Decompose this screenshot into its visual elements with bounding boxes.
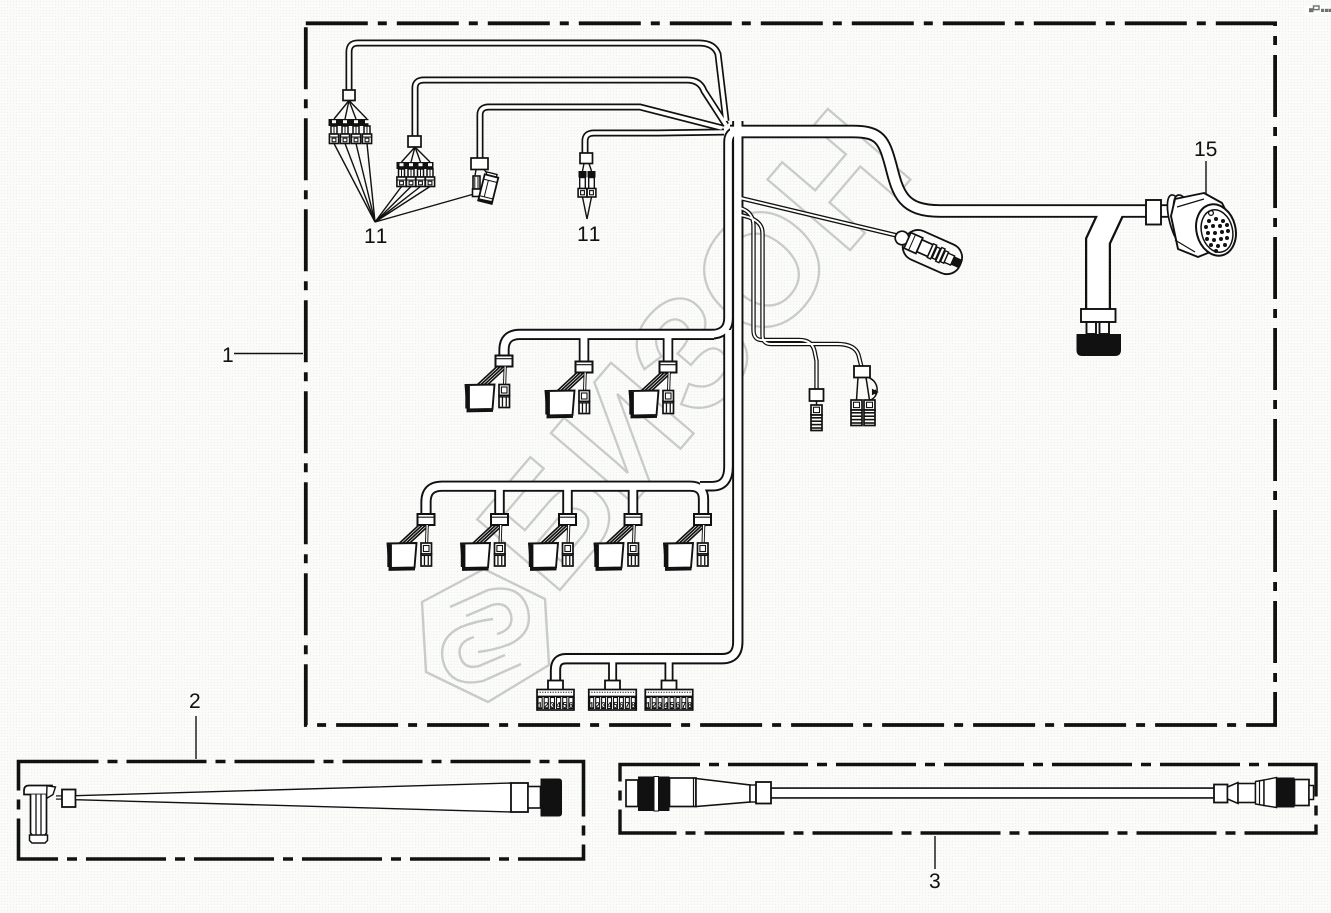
connector 3L body <box>670 778 697 807</box>
wire W3 branch-3 feed <box>480 107 722 161</box>
small connector group 3 <box>473 176 480 189</box>
connector 2 collar <box>511 783 528 812</box>
wire main trunk (core) <box>556 121 738 682</box>
pin 11a-4 <box>362 126 371 144</box>
connector z-2 <box>864 400 875 426</box>
bus bar group 11a <box>329 119 369 126</box>
connector 3L rear <box>626 780 638 807</box>
connector 3L gap <box>654 777 659 812</box>
wire terminal drop 2 (core) <box>610 660 615 681</box>
clamp 3L <box>756 782 771 804</box>
wire terminal drop 2 <box>608 660 617 681</box>
label 15 <box>1196 142 1217 157</box>
box 3 border <box>620 765 1316 834</box>
leader lines group-4 pins <box>583 197 588 219</box>
watermark swoosh <box>450 589 529 652</box>
connector group row1-2 <box>545 362 592 418</box>
wire terminal drop 3 <box>665 660 674 681</box>
label 11 right <box>579 227 600 241</box>
wire boot drop branch <box>1098 211 1112 311</box>
leader lines group-2 pins <box>375 187 402 223</box>
connector 3R nub <box>1309 786 1314 800</box>
wire W2 branch-2 feed <box>415 80 726 138</box>
sensor 2 cap <box>24 786 52 795</box>
connector 15 <box>1163 192 1242 260</box>
clamp 2 <box>62 790 76 808</box>
wire W4 branch-4 feed <box>585 132 724 154</box>
wire W2 branch-2 feed (core) <box>415 80 726 138</box>
wire z-branch a <box>740 208 817 390</box>
z-branch junction box <box>854 366 870 378</box>
wire z-branch a (core) <box>740 208 817 390</box>
connector 3R black band <box>1277 778 1295 808</box>
label 3 <box>930 873 940 888</box>
boot connector band <box>1081 309 1116 322</box>
wire row-2 feed (core) <box>426 486 704 516</box>
connector 2 neck <box>528 787 541 809</box>
wire row-1 riser <box>710 132 736 335</box>
wire row-1 drop C (core) <box>665 335 672 362</box>
connector group row2-5 <box>664 514 711 570</box>
corner mark <box>1305 5 1331 14</box>
connector group 11b feed box <box>408 136 421 147</box>
box 2 border <box>19 762 584 860</box>
label 11 left <box>366 229 387 243</box>
connector 3R cap <box>1295 780 1310 806</box>
wire main right branch (core) <box>730 132 1176 212</box>
wire row-1 drop B (core) <box>581 335 588 362</box>
clamp 3R <box>1214 785 1228 803</box>
connector group row2-2 <box>461 514 508 570</box>
wire row-1 feed <box>504 334 714 357</box>
connector 3L taper <box>696 779 750 807</box>
connector group row2-4 <box>594 514 641 570</box>
connector 3R cone <box>1264 778 1277 808</box>
pin 11c-1 <box>578 171 587 197</box>
wire W1 branch-1 feed (core) <box>349 43 726 121</box>
wire main right branch <box>730 132 1176 212</box>
connector 2 black cap <box>541 779 563 817</box>
label 1 <box>224 348 233 362</box>
wire sensor branch <box>740 198 903 237</box>
wire row-2 drop 2 <box>494 487 505 515</box>
boot connector prongs <box>1087 322 1097 334</box>
connector group row1-3 <box>629 362 676 418</box>
wire row-1 drop B <box>579 335 590 362</box>
wire z-branch b (core) <box>740 215 862 367</box>
bus bar group 11b <box>397 162 434 169</box>
terminal block X1 (6-pin) <box>537 681 574 711</box>
fan wires group 11b <box>402 147 416 162</box>
wire W1 branch-1 feed <box>349 43 726 121</box>
connector 3R flare <box>1228 783 1239 804</box>
connector 3L band 2 <box>659 777 670 812</box>
pressure sensor <box>889 222 966 279</box>
wire row-2 drop 3 (core) <box>564 487 571 515</box>
connector 3R ridges <box>1256 780 1265 806</box>
connector z-1 <box>851 400 862 426</box>
wire W4 branch-4 feed (core) <box>585 132 724 154</box>
pin 11b-4 <box>425 169 434 187</box>
wire row-2 drop 3 <box>562 487 573 515</box>
sensor 2 foot <box>30 835 48 843</box>
boot connector rubber cap <box>1077 334 1122 356</box>
wire cable-3 <box>771 787 1214 799</box>
pin 11b-1 <box>397 169 406 187</box>
wire row-2 riser <box>700 330 729 486</box>
z-branch loop wire <box>870 378 878 400</box>
tilted plug group 3 <box>478 172 499 204</box>
wire row-1 riser (core) <box>710 132 736 335</box>
pin 11a-2 <box>340 126 349 144</box>
connector group row2-1 <box>387 514 434 570</box>
pin 11b-3 <box>416 169 425 187</box>
wire row-2 riser (core) <box>700 330 729 486</box>
connector 3L neck <box>750 785 756 802</box>
wire row-2 drop 2 (core) <box>496 487 503 515</box>
pin 11a-1 <box>329 126 338 144</box>
box 1 border <box>306 23 1275 725</box>
connector group 11c feed box <box>580 153 593 164</box>
wire sensor-2 to clamp <box>56 795 62 799</box>
sensor 2 body <box>31 795 47 837</box>
pin 11c-2 <box>587 171 596 197</box>
wire cable-3 (core) <box>771 789 1214 797</box>
pin 11b-2 <box>406 169 415 187</box>
branch-C junction box <box>810 389 824 401</box>
wire sensor branch (core) <box>740 198 903 237</box>
wire row-1 feed (core) <box>504 334 714 357</box>
z-branch wires <box>857 378 859 401</box>
leader line to group-3 <box>375 194 474 222</box>
wire boot drop branch (core) <box>1098 211 1112 311</box>
leader lines group-1 pins <box>334 144 375 223</box>
wires from feed box 3 <box>475 170 477 180</box>
wire row-2 feed <box>426 486 704 516</box>
wire W3 branch-3 feed (core) <box>480 107 722 161</box>
connector 3L band 1 <box>638 777 654 812</box>
terminal block X3 (8-pin) <box>645 681 693 711</box>
wire z-branch b <box>740 215 862 367</box>
wire row-2 drop 4 (core) <box>630 487 637 515</box>
connector c-1 <box>811 405 822 431</box>
label 2 <box>190 693 200 708</box>
cable clamp <box>1146 200 1161 225</box>
watermark logo hexagon <box>422 569 549 702</box>
connector group 11a feed box <box>343 90 355 101</box>
fan wires group 11c <box>583 164 585 172</box>
wire row-2 drop 4 <box>628 487 639 515</box>
pin 11a-3 <box>351 126 360 144</box>
tapered cable 2 <box>76 783 513 812</box>
connector group row1-1 <box>465 356 512 412</box>
connector 3R barrel <box>1238 784 1256 803</box>
diode mark <box>873 390 878 395</box>
wire main trunk <box>556 121 738 682</box>
connector group 3 feed box <box>471 158 488 170</box>
fan wires group 11a <box>334 101 349 120</box>
wire terminal drop 3 (core) <box>666 660 671 681</box>
connector group row2-3 <box>529 514 576 570</box>
terminal block X2 (8-pin) <box>589 681 637 711</box>
wire row-1 drop C <box>663 335 674 362</box>
